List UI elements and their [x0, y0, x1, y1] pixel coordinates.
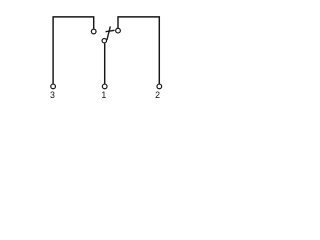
switch S1 lever	[107, 26, 110, 40]
switch S1 actuator crossbar	[106, 30, 115, 31]
switch S1 left throw contact circle	[91, 29, 96, 34]
wire: net from terminal 3 up, across, down to left throw contact	[53, 17, 94, 84]
svg-text:1: 1	[101, 90, 106, 100]
SPDT switch schematic	[0, 0, 202, 116]
svg-text:2: 2	[155, 90, 160, 100]
wire: net from pole down to terminal 1	[104, 43, 106, 84]
switch S1 pole contact circle	[102, 39, 106, 43]
switch S1 right throw contact circle	[116, 28, 121, 33]
terminal circle pin 1	[102, 84, 107, 89]
svg-text:3: 3	[50, 90, 55, 100]
terminal circle pin 2	[157, 84, 162, 89]
terminal circle pin 3	[51, 84, 56, 89]
wire: net from terminal 2 up, across, down to right throw contact	[118, 17, 159, 84]
